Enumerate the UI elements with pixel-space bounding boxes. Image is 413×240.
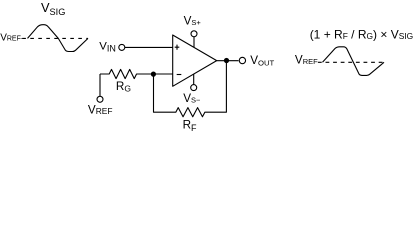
svg-text:VS+: VS+ (184, 15, 202, 28)
svg-text:VS−: VS− (183, 92, 201, 105)
svg-text:VSIG: VSIG (41, 0, 65, 17)
svg-text:(1 + RF / RG) × VSIG: (1 + RF / RG) × VSIG (310, 28, 413, 42)
svg-text:VREF: VREF (88, 104, 113, 117)
svg-text:VIN: VIN (99, 40, 116, 53)
svg-text:VREF-: VREF- (0, 32, 24, 43)
svg-text:VOUT: VOUT (250, 54, 274, 67)
svg-text:VREF: VREF (295, 54, 318, 67)
svg-text:RF: RF (183, 119, 197, 133)
svg-text:RG: RG (116, 80, 131, 94)
